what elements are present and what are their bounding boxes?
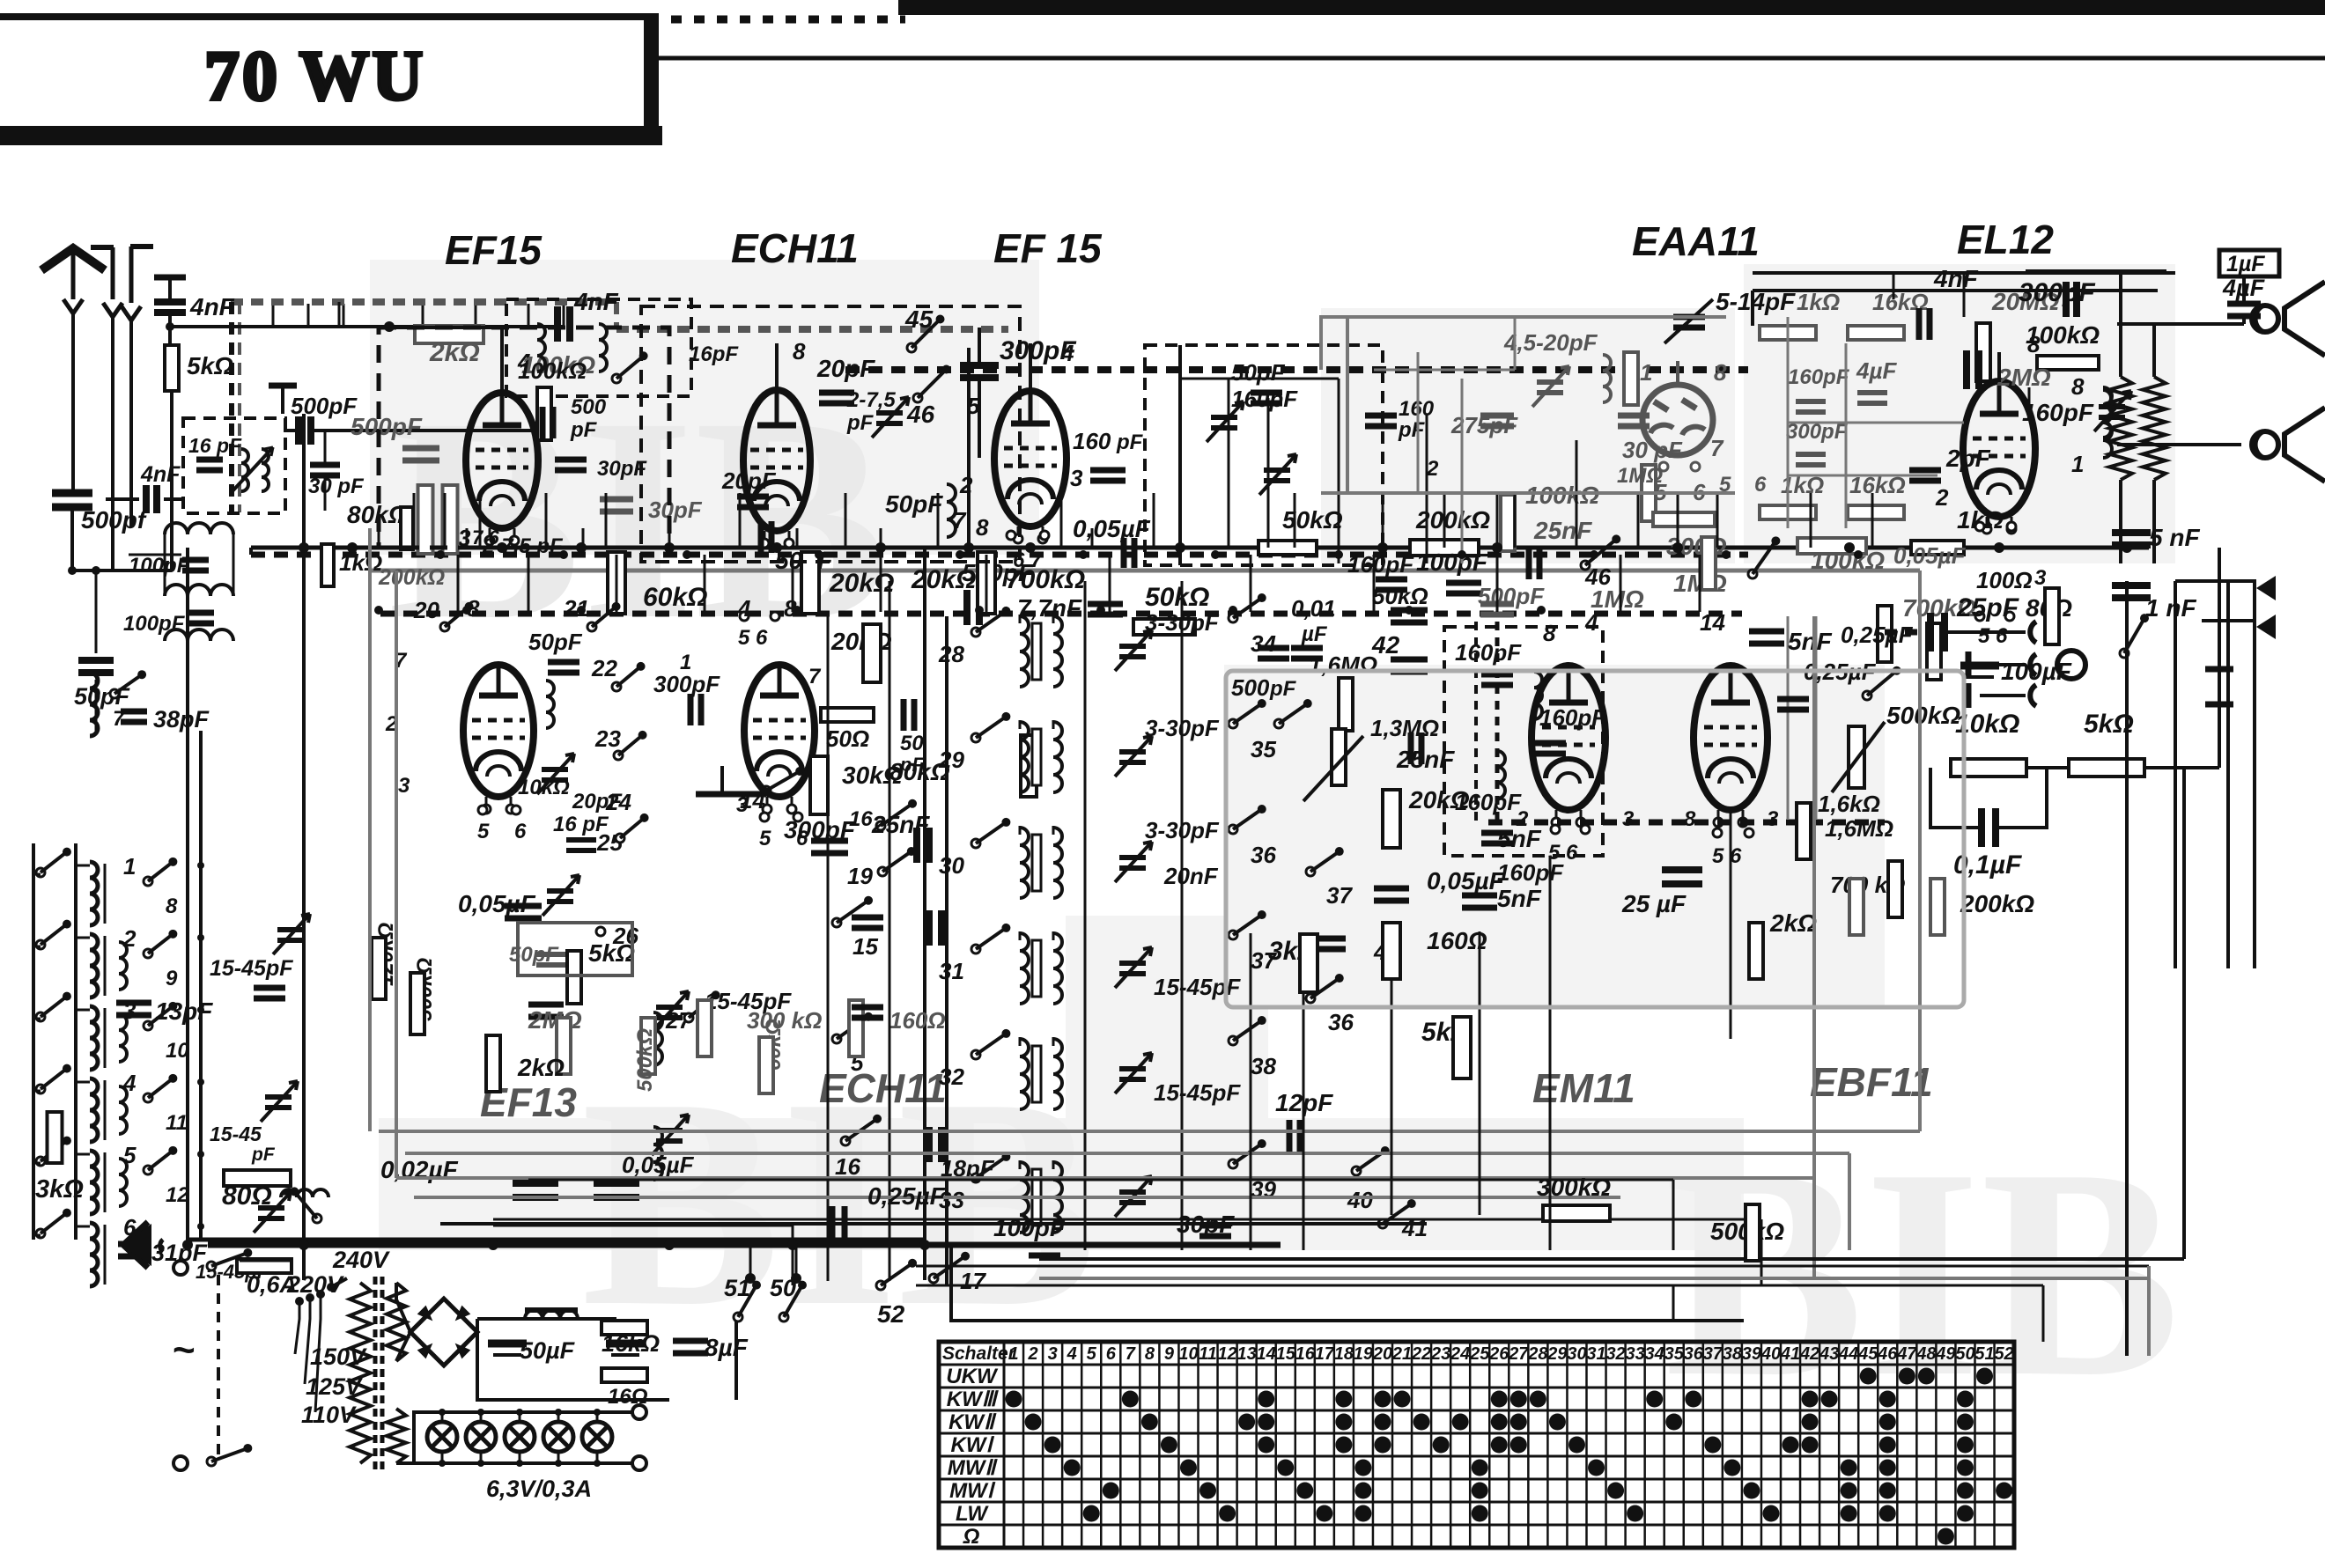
svg-text:3-30pF: 3-30pF: [1145, 715, 1220, 741]
svg-text:5 6: 5 6: [1548, 841, 1578, 865]
svg-text:3: 3: [1622, 807, 1635, 831]
svg-text:pF: pF: [846, 411, 875, 435]
svg-text:50µF: 50µF: [520, 1337, 576, 1364]
svg-text:4nF: 4nF: [1933, 265, 1979, 292]
svg-text:29: 29: [938, 747, 964, 773]
svg-text:29: 29: [1546, 1344, 1568, 1364]
svg-text:17: 17: [960, 1268, 986, 1294]
svg-text:35: 35: [1251, 736, 1276, 762]
svg-text:3: 3: [398, 774, 410, 798]
svg-text:34: 34: [1645, 1344, 1664, 1364]
svg-text:13pF: 13pF: [155, 997, 213, 1025]
svg-text:15-45pF: 15-45pF: [210, 956, 293, 981]
svg-text:43: 43: [1819, 1344, 1839, 1364]
svg-text:ECH11: ECH11: [819, 1065, 947, 1111]
svg-text:28: 28: [1527, 1344, 1548, 1364]
svg-text:50: 50: [900, 732, 924, 755]
svg-text:30: 30: [939, 852, 964, 879]
svg-text:4nF: 4nF: [573, 288, 619, 315]
svg-text:50pF: 50pF: [885, 490, 943, 518]
svg-text:1kΩ: 1kΩ: [1797, 289, 1840, 315]
svg-text:4: 4: [1060, 340, 1074, 366]
svg-text:28: 28: [938, 641, 964, 667]
svg-text:7 6: 7 6: [472, 526, 499, 548]
svg-text:6: 6: [1106, 1344, 1117, 1364]
svg-text:16 pF: 16 pF: [553, 813, 609, 836]
svg-text:7: 7: [1710, 435, 1724, 461]
svg-text:160: 160: [1399, 397, 1435, 421]
svg-text:160pF: 160pF: [1455, 639, 1522, 666]
svg-text:33: 33: [1626, 1344, 1645, 1364]
svg-text:300pF: 300pF: [653, 671, 720, 697]
svg-text:60kΩ: 60kΩ: [643, 583, 707, 612]
svg-text:1kΩ: 1kΩ: [339, 549, 382, 576]
svg-text:30 pF: 30 pF: [1622, 437, 1683, 463]
svg-text:1: 1: [2071, 451, 2084, 477]
svg-text:16: 16: [1295, 1344, 1316, 1364]
svg-text:2: 2: [959, 472, 973, 498]
svg-text:100kΩ: 100kΩ: [1525, 482, 1599, 509]
svg-text:50kΩ: 50kΩ: [1282, 506, 1343, 534]
svg-text:3: 3: [736, 793, 749, 817]
svg-text:7: 7: [808, 665, 822, 688]
svg-text:1: 1: [1640, 359, 1652, 386]
svg-text:pF: pF: [251, 1145, 276, 1165]
svg-text:8: 8: [1145, 1344, 1155, 1364]
svg-text:26: 26: [612, 923, 638, 949]
svg-text:50pF: 50pF: [1231, 359, 1286, 386]
svg-text:2kΩ: 2kΩ: [517, 1054, 565, 1081]
svg-text:20kΩ: 20kΩ: [829, 569, 894, 598]
svg-text:µF: µF: [1301, 622, 1328, 646]
svg-text:EL12: EL12: [1957, 217, 2054, 262]
svg-text:1,3MΩ: 1,3MΩ: [1370, 715, 1439, 741]
svg-text:EM11: EM11: [1532, 1065, 1635, 1111]
svg-text:2: 2: [1516, 807, 1529, 831]
svg-text:25: 25: [1469, 1344, 1490, 1364]
svg-text:160Ω: 160Ω: [1427, 927, 1487, 954]
svg-text:500pf: 500pf: [81, 506, 148, 534]
svg-text:32: 32: [1605, 1344, 1625, 1364]
svg-text:MWⅠ: MWⅠ: [949, 1479, 996, 1503]
svg-text:~: ~: [173, 1329, 196, 1372]
svg-text:EBF11: EBF11: [1810, 1059, 1933, 1105]
svg-text:3-30pF: 3-30pF: [1145, 817, 1220, 843]
svg-text:47: 47: [1896, 1344, 1917, 1364]
svg-text:10: 10: [1178, 1344, 1198, 1364]
svg-text:500pF: 500pF: [351, 413, 423, 440]
svg-text:EF15: EF15: [445, 227, 542, 273]
svg-text:8: 8: [1543, 620, 1556, 646]
svg-text:4: 4: [737, 595, 751, 622]
svg-text:22: 22: [1411, 1344, 1431, 1364]
svg-text:EF 15: EF 15: [993, 225, 1103, 271]
svg-text:23: 23: [1430, 1344, 1450, 1364]
svg-text:8: 8: [793, 338, 806, 364]
svg-text:36: 36: [1328, 1009, 1354, 1035]
svg-text:160pF: 160pF: [2022, 399, 2094, 426]
svg-text:22: 22: [591, 655, 617, 681]
svg-text:20: 20: [1372, 1344, 1392, 1364]
svg-text:34: 34: [1251, 630, 1276, 657]
svg-text:1: 1: [1008, 1344, 1018, 1364]
svg-text:160pF: 160pF: [1231, 386, 1298, 412]
svg-text:pF: pF: [570, 418, 598, 442]
svg-text:100pF: 100pF: [123, 612, 186, 636]
svg-text:8: 8: [976, 514, 989, 541]
svg-text:5: 5: [1087, 1344, 1097, 1364]
svg-text:38: 38: [1251, 1053, 1276, 1079]
svg-text:4nF: 4nF: [140, 462, 181, 487]
svg-text:pF: pF: [1269, 677, 1297, 701]
svg-text:17: 17: [1315, 1344, 1335, 1364]
svg-text:3: 3: [1070, 465, 1083, 491]
svg-text:30 pF: 30 pF: [308, 475, 365, 498]
svg-text:5kΩ: 5kΩ: [187, 352, 233, 379]
svg-text:5 6: 5 6: [738, 626, 768, 650]
svg-text:49: 49: [1935, 1344, 1956, 1364]
svg-text:2kΩ: 2kΩ: [1769, 909, 1817, 937]
svg-text:5: 5: [477, 820, 490, 843]
svg-text:KWⅢ: KWⅢ: [947, 1388, 1000, 1411]
svg-text:26: 26: [1488, 1344, 1509, 1364]
svg-text:15-45pF: 15-45pF: [1154, 1079, 1241, 1106]
svg-text:0,25µF: 0,25µF: [867, 1182, 946, 1210]
svg-text:20pF: 20pF: [816, 355, 875, 382]
svg-text:20kΩ: 20kΩ: [1408, 786, 1470, 813]
svg-text:pF: pF: [899, 754, 924, 776]
svg-text:70 WU: 70 WU: [204, 38, 425, 115]
svg-text:1,6MΩ: 1,6MΩ: [1825, 815, 1893, 842]
svg-text:700kΩ: 700kΩ: [1006, 565, 1085, 594]
svg-text:4µF: 4µF: [1856, 357, 1897, 384]
svg-text:52: 52: [877, 1300, 905, 1328]
svg-text:35: 35: [1664, 1344, 1685, 1364]
svg-text:23: 23: [594, 725, 621, 752]
svg-text:1 nF: 1 nF: [2145, 594, 2196, 622]
svg-text:19: 19: [1354, 1344, 1374, 1364]
svg-text:UKW: UKW: [946, 1365, 999, 1388]
svg-text:100pF: 100pF: [129, 554, 191, 578]
svg-text:25nF: 25nF: [1396, 746, 1455, 773]
svg-text:2: 2: [122, 925, 137, 952]
svg-text:31: 31: [1586, 1344, 1605, 1364]
svg-text:200kΩ: 200kΩ: [378, 565, 445, 590]
svg-text:3: 3: [1048, 1344, 1058, 1364]
svg-text:0,05µF: 0,05µF: [1893, 542, 1967, 569]
svg-text:16 pF: 16 pF: [188, 434, 242, 457]
svg-text:12: 12: [1217, 1344, 1236, 1364]
svg-text:5: 5: [967, 393, 980, 419]
svg-text:31: 31: [939, 958, 964, 984]
svg-text:46: 46: [906, 401, 935, 428]
svg-text:1MΩ: 1MΩ: [1617, 464, 1663, 488]
svg-text:14: 14: [1257, 1344, 1276, 1364]
svg-text:16: 16: [835, 1153, 860, 1180]
svg-text:16kΩ: 16kΩ: [602, 1330, 660, 1357]
svg-text:160: 160: [1073, 428, 1111, 454]
svg-text:25 µF: 25 µF: [1621, 890, 1687, 917]
svg-text:42: 42: [1799, 1344, 1819, 1364]
svg-text:50pF: 50pF: [528, 629, 583, 655]
svg-text:25nF: 25nF: [871, 811, 930, 838]
svg-text:25nF: 25nF: [1533, 517, 1592, 544]
svg-text:5: 5: [123, 1142, 137, 1168]
svg-text:11: 11: [166, 1111, 188, 1135]
svg-text:40: 40: [1760, 1344, 1781, 1364]
svg-text:27: 27: [1508, 1344, 1529, 1364]
svg-text:16pF: 16pF: [689, 342, 739, 366]
svg-text:4: 4: [122, 1070, 137, 1096]
svg-text:15: 15: [852, 933, 878, 960]
svg-text:5: 5: [759, 827, 771, 850]
svg-text:45: 45: [1857, 1344, 1878, 1364]
svg-text:38pF: 38pF: [153, 706, 210, 732]
svg-text:11: 11: [1199, 1344, 1217, 1364]
svg-text:3: 3: [1767, 807, 1779, 831]
svg-text:48: 48: [1915, 1344, 1937, 1364]
svg-text:8: 8: [166, 894, 178, 918]
svg-text:pF: pF: [1116, 431, 1144, 454]
svg-text:6: 6: [796, 827, 808, 850]
svg-text:37: 37: [1703, 1344, 1723, 1364]
svg-text:6: 6: [514, 820, 527, 843]
svg-text:2: 2: [1028, 1344, 1038, 1364]
svg-text:1µF: 1µF: [2226, 252, 2265, 276]
svg-text:8: 8: [2071, 373, 2085, 400]
svg-text:8: 8: [2027, 331, 2041, 357]
svg-text:13: 13: [1237, 1344, 1257, 1364]
svg-text:5 nF: 5 nF: [2149, 524, 2200, 551]
svg-text:100kΩ: 100kΩ: [518, 357, 587, 384]
svg-text:50kΩ: 50kΩ: [1145, 583, 1209, 612]
svg-text:1,6kΩ: 1,6kΩ: [1818, 791, 1880, 817]
svg-text:100Ω: 100Ω: [1976, 567, 2033, 593]
svg-text:3: 3: [2034, 566, 2047, 590]
svg-text:32: 32: [939, 1064, 964, 1090]
svg-text:KWⅡ: KWⅡ: [948, 1410, 997, 1434]
svg-text:0,01: 0,01: [1291, 595, 1336, 622]
svg-text:51: 51: [1974, 1344, 1994, 1364]
svg-text:10kΩ: 10kΩ: [518, 776, 570, 799]
svg-text:KWⅠ: KWⅠ: [950, 1433, 994, 1457]
svg-text:500kΩ: 500kΩ: [633, 1028, 657, 1092]
svg-text:50Ω: 50Ω: [826, 725, 869, 752]
svg-text:50: 50: [1955, 1344, 1974, 1364]
svg-text:8: 8: [1714, 359, 1727, 386]
svg-text:45: 45: [904, 306, 934, 333]
svg-text:1MΩ: 1MΩ: [1591, 585, 1644, 613]
svg-text:30kΩ: 30kΩ: [842, 762, 903, 789]
svg-text:Ω: Ω: [963, 1525, 980, 1549]
svg-text:20: 20: [413, 597, 439, 623]
svg-text:0,05µF: 0,05µF: [1073, 515, 1151, 542]
svg-text:37: 37: [1326, 882, 1353, 909]
svg-text:5 6: 5 6: [1978, 624, 2008, 648]
svg-text:4: 4: [1067, 1344, 1077, 1364]
svg-text:6: 6: [1754, 473, 1767, 497]
svg-text:2MΩ: 2MΩ: [528, 1006, 582, 1034]
svg-text:7: 7: [953, 507, 967, 534]
svg-text:MWⅡ: MWⅡ: [948, 1456, 999, 1480]
svg-text:9: 9: [1164, 1344, 1175, 1364]
svg-text:2: 2: [1935, 484, 1949, 511]
svg-text:ECH11: ECH11: [731, 225, 859, 271]
svg-text:160pF: 160pF: [1788, 365, 1850, 389]
svg-text:BIB: BIB: [387, 358, 889, 680]
svg-text:41: 41: [1780, 1344, 1800, 1364]
svg-text:pF: pF: [1398, 418, 1426, 442]
svg-text:EAA11: EAA11: [1632, 218, 1760, 264]
svg-text:20kΩ: 20kΩ: [830, 628, 892, 655]
svg-text:3-30pF: 3-30pF: [1145, 609, 1220, 636]
svg-text:36: 36: [1251, 842, 1276, 868]
svg-text:1: 1: [123, 853, 136, 880]
svg-text:20pF: 20pF: [572, 790, 623, 813]
svg-text:14: 14: [1700, 609, 1725, 636]
svg-text:5 6: 5 6: [1712, 844, 1742, 868]
svg-text:4: 4: [1584, 609, 1598, 636]
svg-text:300pF: 300pF: [2019, 278, 2095, 307]
svg-text:8: 8: [1684, 807, 1696, 831]
svg-text:2kΩ: 2kΩ: [429, 338, 480, 367]
svg-text:160pF: 160pF: [1539, 704, 1606, 731]
svg-text:30pF: 30pF: [648, 497, 703, 523]
svg-text:21: 21: [1391, 1344, 1412, 1364]
svg-text:160Ω: 160Ω: [889, 1007, 946, 1034]
svg-text:46: 46: [1877, 1344, 1898, 1364]
svg-text:5nF: 5nF: [1788, 628, 1833, 655]
svg-text:200kΩ: 200kΩ: [1960, 890, 2034, 917]
svg-text:9: 9: [166, 967, 178, 990]
svg-text:15-45: 15-45: [210, 1123, 262, 1145]
svg-text:20nF: 20nF: [1163, 863, 1219, 889]
svg-text:240V: 240V: [332, 1247, 390, 1273]
svg-text:36: 36: [1684, 1344, 1704, 1364]
svg-text:Schalter: Schalter: [942, 1343, 1017, 1364]
svg-text:160pF: 160pF: [1347, 551, 1414, 578]
svg-text:19: 19: [847, 863, 873, 889]
svg-text:4,5-20pF: 4,5-20pF: [1503, 329, 1598, 356]
svg-text:0,25µF: 0,25µF: [1841, 622, 1914, 648]
svg-text:6,3V/0,3A: 6,3V/0,3A: [486, 1476, 592, 1502]
svg-text:24: 24: [1450, 1344, 1470, 1364]
svg-text:39: 39: [1742, 1344, 1762, 1364]
svg-text:18: 18: [1334, 1344, 1354, 1364]
svg-text:500pF: 500pF: [291, 393, 358, 419]
svg-text:38: 38: [1723, 1344, 1743, 1364]
svg-text:15: 15: [1276, 1344, 1296, 1364]
svg-text:500kΩ: 500kΩ: [1886, 702, 1960, 729]
svg-text:3kΩ: 3kΩ: [35, 1175, 84, 1204]
svg-text:40: 40: [1347, 1187, 1373, 1213]
svg-text:52: 52: [1994, 1344, 2013, 1364]
svg-text:80Ω: 80Ω: [222, 1182, 272, 1211]
svg-text:8µF: 8µF: [705, 1334, 749, 1361]
svg-text:500: 500: [1231, 674, 1270, 701]
svg-text:4nF: 4nF: [189, 293, 235, 320]
svg-text:30: 30: [1567, 1344, 1586, 1364]
svg-text:0,05µF: 0,05µF: [1427, 867, 1505, 894]
svg-text:2MΩ: 2MΩ: [1997, 364, 2051, 391]
svg-text:20pF: 20pF: [721, 467, 777, 494]
svg-text:7: 7: [1126, 1344, 1136, 1364]
svg-text:5nF: 5nF: [1497, 885, 1542, 912]
svg-text:500: 500: [571, 395, 607, 419]
svg-text:2-7,5: 2-7,5: [846, 388, 896, 412]
svg-text:25pF: 25pF: [1956, 593, 2019, 622]
svg-text:300kΩ: 300kΩ: [1537, 1174, 1611, 1201]
svg-text:44: 44: [1838, 1344, 1858, 1364]
svg-text:LW: LW: [956, 1502, 989, 1526]
svg-text:2pF: 2pF: [1945, 445, 1991, 472]
